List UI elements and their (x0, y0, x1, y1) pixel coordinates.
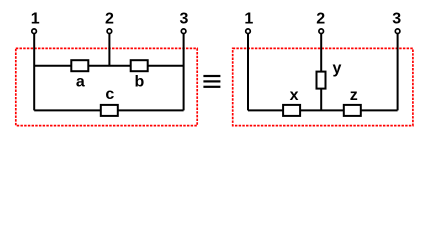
svg-text:x: x (290, 87, 299, 104)
svg-text:2: 2 (316, 11, 325, 28)
resistor x (283, 105, 300, 116)
equivalence symbol (203, 75, 220, 88)
wire: terminal 3 rail (right network right vertical) (397, 31, 399, 110)
svg-text:3: 3 (392, 11, 401, 28)
wire: terminal 3 rail (right vertical) (183, 31, 185, 110)
wire: terminal 2 stub (middle vertical) (108, 31, 110, 65)
resistor z (344, 105, 361, 116)
svg-text:c: c (105, 86, 114, 103)
svg-text:1: 1 (31, 11, 40, 28)
svg-text:1: 1 (244, 11, 253, 28)
svg-text:2: 2 (105, 11, 114, 28)
svg-text:3: 3 (180, 11, 189, 28)
dashed enclosure left network (16, 48, 197, 125)
wire: bottom horizontal (through x and z) (248, 109, 398, 111)
terminal 2 (right network) (319, 29, 324, 34)
svg-text:b: b (135, 73, 145, 90)
terminal 3 (right network) (395, 29, 400, 34)
resistor y (317, 72, 326, 89)
wire: terminal 1 rail (right network left vertical) (247, 31, 249, 110)
svg-text:a: a (76, 73, 85, 90)
dashed enclosure right network (233, 48, 413, 125)
wire: bottom horizontal (through c) (34, 109, 183, 111)
resistor c (101, 105, 118, 116)
resistor a (71, 60, 88, 71)
svg-text:y: y (333, 60, 342, 77)
resistor b (131, 60, 148, 71)
terminal 1 (left network) (32, 29, 37, 34)
svg-text:z: z (350, 87, 358, 104)
wire: top horizontal (through a and b) (34, 65, 183, 67)
wire: terminal 1 rail (left vertical) (33, 31, 35, 110)
terminal 2 (left network) (107, 29, 112, 34)
wire: terminal 2 rail (right network middle vertical, through y) (320, 31, 322, 110)
terminal 1 (right network) (246, 29, 251, 34)
terminal 3 (left network) (181, 29, 186, 34)
